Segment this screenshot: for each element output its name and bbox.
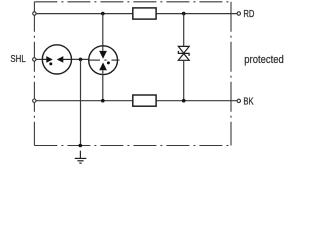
surge arrester GDT right (line-to-line) [89,46,120,75]
wire from top junction down to GDT right [102,14,104,51]
wire from suppressor down to bottom rail [183,60,185,100]
wire bottom rail right segment [156,100,237,102]
wire bottom rail left segment [36,100,133,102]
terminal RD [237,12,240,15]
node junction top-middle [101,12,105,16]
enclosure dash-dot border bottom [34,145,231,147]
wire SHL rail from arrester to junction [71,58,89,60]
enclosure dash-dot border top [34,1,231,3]
wire SHL rail from terminal to arrester [36,58,43,60]
wire from GDT right down to bottom rail [102,70,104,100]
resistor top [133,8,156,19]
terminal bottom-left [33,99,36,102]
wire top rail right segment [156,13,237,15]
ground earth symbol [75,151,87,163]
node junction SHL [79,58,83,62]
svg-text:protected: protected [244,54,284,66]
node junction ground on enclosure [79,144,83,148]
surge arrester GDT left (shield) [42,45,71,74]
enclosure dash-dot border right [230,2,232,146]
wire from top-right junction down to suppressor [183,14,185,47]
terminal SHL [33,58,36,61]
svg-text:BK: BK [243,96,254,107]
node junction bottom-right [182,99,186,103]
node junction top-right [182,12,186,16]
node junction bottom-middle [101,99,105,103]
resistor bottom [133,95,156,106]
suppressor diode bidirectional TVS [178,46,189,60]
wire top rail left segment [36,13,133,15]
terminal top-left [33,12,36,15]
svg-text:SHL: SHL [10,53,25,64]
wire SHL vertical to ground [80,59,82,145]
enclosure dash-dot border left [33,2,35,146]
svg-text:RD: RD [243,8,254,19]
terminal BK [237,99,240,102]
